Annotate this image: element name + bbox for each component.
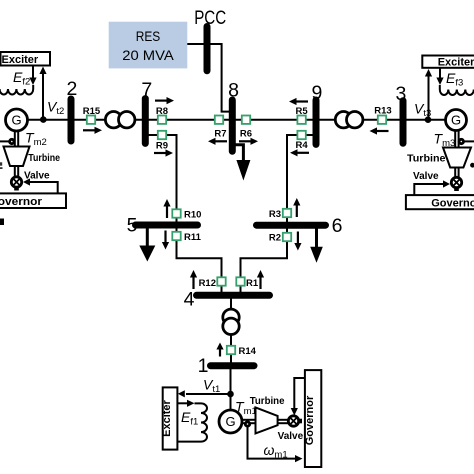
svg-text:20 MVA: 20 MVA [122,48,174,63]
svg-text:Exciter: Exciter [161,399,173,436]
svg-text:R13: R13 [374,106,391,117]
svg-text:R15: R15 [83,106,101,117]
svg-text:R2: R2 [269,233,281,244]
svg-text:6: 6 [332,215,343,237]
svg-text:8: 8 [228,79,239,101]
svg-text:Valve: Valve [413,171,439,182]
svg-text:Governor: Governor [431,198,474,210]
svg-text:1: 1 [198,355,209,377]
svg-text:Turbine: Turbine [250,396,285,407]
svg-text:R3: R3 [269,209,281,220]
svg-text:RES: RES [136,29,161,44]
svg-text:Exciter: Exciter [2,54,39,66]
svg-text:Exciter: Exciter [438,57,474,69]
svg-text:R8: R8 [156,106,168,117]
svg-text:R14: R14 [239,346,257,357]
svg-text:PCC: PCC [194,7,226,29]
svg-text:R5: R5 [296,106,309,117]
svg-text:Turbine: Turbine [28,153,60,164]
svg-text:R7: R7 [214,128,226,139]
svg-text:7: 7 [141,79,152,101]
svg-text:R11: R11 [184,232,202,243]
svg-text:2: 2 [66,78,77,100]
svg-text:G: G [451,113,461,128]
svg-text:4: 4 [184,289,195,311]
svg-text:Governor: Governor [304,395,316,445]
svg-text:R6: R6 [240,128,252,139]
svg-text:Valve: Valve [278,431,304,442]
svg-text:R12: R12 [199,278,216,289]
svg-text:G: G [225,414,235,429]
svg-text:G: G [11,113,21,128]
svg-text:R10: R10 [184,210,201,221]
svg-text:R1: R1 [246,278,259,289]
svg-text:Governor: Governor [0,196,43,208]
svg-text:3: 3 [395,83,406,105]
svg-text:9: 9 [311,82,322,104]
svg-text:5: 5 [127,215,138,237]
svg-text:Turbine: Turbine [407,154,446,165]
